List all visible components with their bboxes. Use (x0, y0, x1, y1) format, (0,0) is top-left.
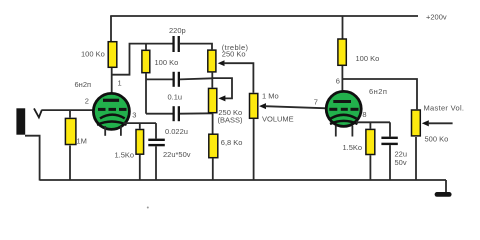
svg-text:Master Vol.: Master Vol. (424, 104, 465, 113)
tube V1 heater arc (97, 122, 127, 125)
svg-text:2: 2 (85, 97, 89, 106)
input arrow V (34, 108, 42, 117)
wire +200v top supply rail (110, 15, 418, 17)
wire plate junction to coupling network (112, 44, 173, 75)
svg-text:100 Ko: 100 Ko (356, 54, 380, 63)
svg-text:0.022u: 0.022u (165, 127, 188, 136)
bass wiper arrow (218, 95, 225, 101)
tube V1 grid dash 1 (98, 108, 106, 111)
capacitor 0.022u left plate (173, 106, 175, 121)
wire 22u bottom to rail (155, 146, 157, 180)
wire 0.1u left (146, 78, 173, 80)
input jack J1 (16, 108, 25, 134)
resistor 1M (65, 118, 76, 144)
svg-text:22u*50v: 22u*50v (163, 150, 191, 159)
svg-text:VOLUME: VOLUME (262, 115, 294, 124)
wire treble bottom to bass top (211, 72, 213, 88)
wire V1 pin 3 to cathode junction (124, 122, 157, 124)
wire ground stem (445, 180, 447, 193)
wire R1 bottom / V1 plate lead pin 1 (111, 68, 113, 99)
stray speck (147, 207, 149, 209)
svg-text:1M: 1M (77, 137, 87, 146)
wire 1.5Ko bottom to rail (139, 155, 141, 180)
svg-text:100 Ko: 100 Ko (155, 58, 179, 67)
capacitor 220p right plate (178, 36, 180, 52)
svg-text:1: 1 (118, 79, 122, 88)
tube V2 grid dash 1 (329, 108, 337, 111)
capacitor 22u 50v bottom plate (381, 143, 397, 145)
wire 22u top lead (155, 123, 157, 139)
tube V1 grid dash 3 (119, 108, 127, 111)
wire 1M bottom (69, 146, 71, 181)
tube V1 heater lead right (120, 126, 122, 136)
wire 1.5Ko (V2) top lead (369, 122, 371, 128)
tube V1 envelope (93, 93, 129, 129)
svg-text:50v: 50v (395, 158, 407, 167)
wire volume wiper to V2 grid pin 7 (265, 106, 327, 108)
svg-text:220p: 220p (169, 26, 186, 35)
svg-text:6н2п: 6н2п (75, 80, 92, 89)
resistor R2 100 Ko (142, 50, 150, 72)
capacitor 0.1u right plate (178, 72, 180, 87)
tube V2 cathode arc (331, 115, 357, 119)
wire master bottom to ground rail (415, 137, 417, 180)
ground symbol (435, 192, 452, 197)
svg-text:1.5Ko: 1.5Ko (115, 151, 135, 160)
wire 0.1u right to treble-bass junction (180, 78, 212, 79)
svg-text:3: 3 (132, 111, 136, 120)
capacitor 220p left plate (172, 36, 174, 52)
tube V2 envelope (326, 91, 361, 126)
svg-text:6н2п: 6н2п (369, 87, 387, 96)
wire volume bottom to ground rail (253, 119, 255, 180)
wire 1.5Ko top lead (139, 123, 141, 129)
wire master wiper output stub (428, 122, 453, 124)
wire bass wiper loop (212, 78, 232, 98)
capacitor 0.1u left plate (173, 72, 175, 87)
svg-text:7: 7 (314, 98, 318, 107)
tube V1 plate bar (103, 99, 119, 102)
svg-text:1.5Ko: 1.5Ko (343, 143, 363, 152)
potentiometer bass 250 Ko (209, 88, 217, 112)
capacitor 22u 50v top plate (381, 137, 397, 139)
wire bass bottom to R3 (212, 113, 214, 133)
svg-text:1 Mo: 1 Mo (262, 92, 279, 101)
resistor R3 6,8 Ko (209, 134, 218, 158)
capacitor 22u*50v bottom plate (148, 144, 165, 146)
wire treble wiper to volume top (224, 63, 254, 93)
wire 22u (V2) top lead (389, 122, 391, 136)
resistor R1 100 Ko (108, 42, 117, 68)
wire 0.022u right to bass bottom (180, 112, 213, 114)
wire 22u (V2) bottom to rail (389, 145, 391, 180)
tube V2 plate bar (333, 100, 351, 103)
volume wiper arrow (259, 103, 266, 109)
svg-text:8: 8 (362, 110, 366, 119)
potentiometer treble 250 Ko (208, 50, 216, 72)
wire 220p to treble pot top (180, 44, 212, 50)
wire input to V1 grid pin 2 (42, 109, 99, 111)
wire supply drop to R1 (110, 16, 112, 42)
svg-text:(BASS): (BASS) (218, 115, 244, 124)
tube V1 grid dash 2 (109, 108, 117, 111)
wire supply drop to R4 (342, 16, 344, 39)
svg-text:6,8 Ko: 6,8 Ko (221, 138, 243, 147)
tube V2 grid dash 2 (341, 108, 348, 111)
wire 1.5Ko (V2) bottom to rail (369, 155, 371, 180)
wire V2 plate junction to master pot (343, 79, 418, 109)
tube V1 heater lead left (104, 126, 106, 136)
wire 1M top (69, 110, 71, 117)
wire R2 top (145, 44, 147, 50)
resistor 1.5Ko (V1 cathode) (136, 130, 144, 155)
tube V2 heater lead right (351, 126, 353, 137)
capacitor 0.022u right plate (178, 106, 180, 121)
potentiometer master 500 Ko (412, 110, 421, 136)
treble wiper arrow (218, 60, 225, 66)
wire V2 pin 8 to cathode junction (356, 121, 390, 123)
wire R4 bottom / V2 plate lead pin 6 (341, 66, 343, 101)
svg-text:500 Ko: 500 Ko (425, 135, 449, 144)
resistor R4 100 Ko (338, 39, 346, 65)
svg-text:250 Ko: 250 Ko (222, 50, 246, 59)
tube V2 heater lead left (335, 126, 337, 137)
wire 0.022u left (146, 113, 173, 115)
tube V1 cathode arc (100, 115, 125, 119)
resistor 1.5Ko (V2 cathode) (366, 129, 375, 154)
capacitor 22u*50v top plate (148, 139, 165, 141)
wire R3 bottom to ground rail (212, 158, 214, 180)
master wiper arrow (422, 120, 429, 126)
potentiometer volume 1 Mo (250, 94, 258, 119)
svg-text:+200v: +200v (426, 13, 447, 22)
svg-text:0.1u: 0.1u (168, 93, 183, 102)
tube V2 grid dash 3 (351, 108, 359, 111)
tube V2 heater arc (330, 121, 358, 124)
svg-text:100 Ko: 100 Ko (81, 50, 105, 59)
wire jack sleeve to ground rail (25, 136, 40, 181)
wire bottom ground rail (40, 179, 446, 181)
svg-text:6: 6 (336, 77, 340, 86)
wire R2 bottom bus (145, 74, 147, 114)
